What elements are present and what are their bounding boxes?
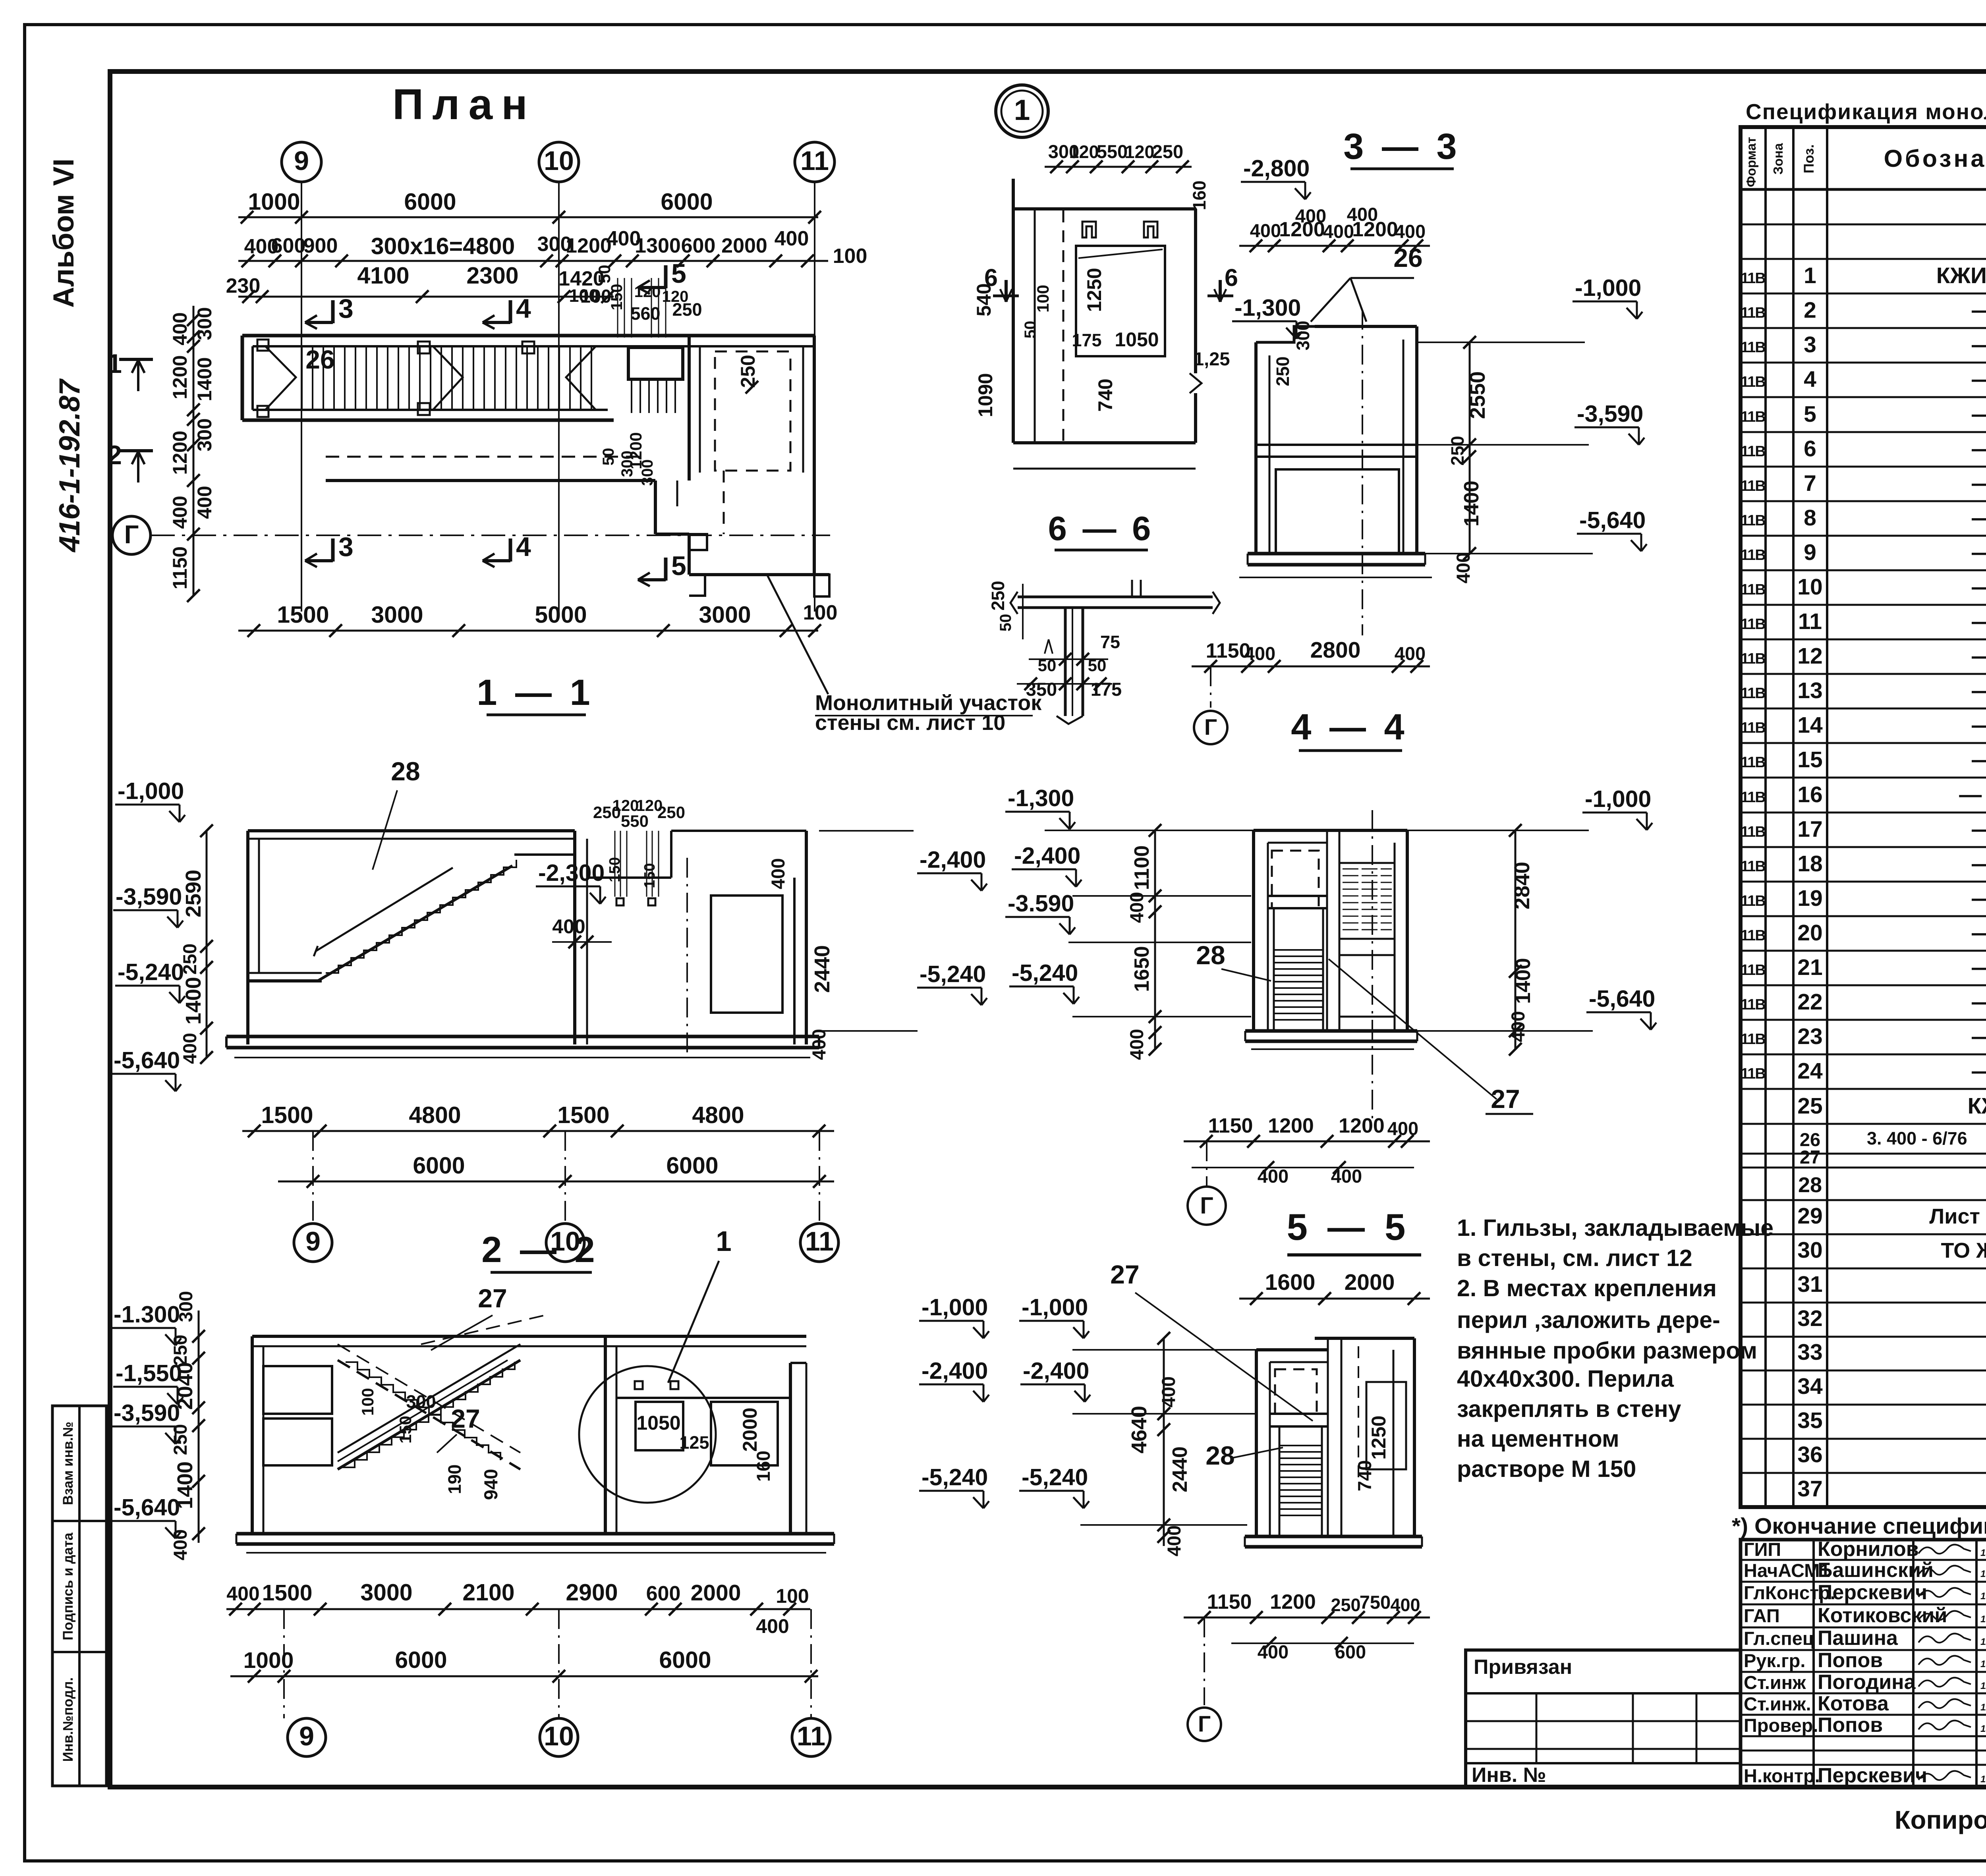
svg-text:29: 29 [1797,1203,1822,1229]
svg-text:11В: 11В [1741,996,1765,1013]
svg-text:400: 400 [226,1583,259,1605]
section 3-3 axis dash line [1362,310,1363,635]
svg-text:400: 400 [1295,205,1326,226]
svg-text:6000: 6000 [666,1152,718,1179]
svg-text:2: 2 [1804,297,1816,323]
svg-text:1090: 1090 [974,373,997,417]
svg-text:6000: 6000 [395,1647,447,1673]
svg-text:— НКР 38: — НКР 38 [1972,920,1986,946]
section 1-1 middle wall [573,831,576,1044]
section 5-5 bottom slab [1245,1535,1422,1538]
svg-text:11: 11 [797,1721,825,1751]
svg-text:-5,240: -5,240 [1022,1464,1088,1490]
svg-text:1000: 1000 [243,1648,294,1673]
svg-text:— НКР 24: — НКР 24 [1972,436,1986,461]
svg-text:11В: 11В [1741,1065,1765,1082]
svg-text:-1,000: -1,000 [1022,1294,1088,1320]
svg-text:550: 550 [1097,141,1128,162]
section 2-2 grid dim chain [230,1675,818,1677]
spec table heading row sborochnye [1741,224,1986,226]
svg-text:11В: 11В [1741,1031,1765,1048]
svg-text:15.10.86: 15.10.86 [1980,1774,1986,1785]
svg-text:11В: 11В [1741,270,1765,287]
svg-text:27: 27 [1800,1146,1820,1168]
svg-text:КЖН- НС9: КЖН- НС9 [1968,1093,1986,1119]
svg-text:Инв. №: Инв. № [1472,1764,1546,1787]
svg-text:Обозначение: Обозначение [1884,145,1986,172]
section 2-2 bottom dim chain [226,1608,810,1610]
svg-text:— НКР 22: — НКР 22 [1972,367,1986,392]
svg-text:Пашина: Пашина [1818,1627,1898,1650]
svg-text:25: 25 [1797,1093,1822,1119]
svg-text:1300: 1300 [635,234,681,257]
svg-text:400: 400 [1244,643,1275,664]
svg-text:3. 400 - 6/76: 3. 400 - 6/76 [1867,1128,1967,1148]
svg-text:1050: 1050 [636,1412,680,1434]
svg-text:400: 400 [1387,1118,1418,1139]
svg-text:— НКР 39: — НКР 39 [1972,955,1986,980]
svg-text:-1,000: -1,000 [118,778,184,804]
svg-text:12.10.86: 12.10.86 [1980,1702,1986,1713]
svg-text:250: 250 [170,1335,191,1366]
section 2-2 top slab [252,1335,806,1338]
section 3-3 left detail body [1013,207,1196,210]
svg-text:400: 400 [193,486,216,519]
signature squiggle [1918,1544,1971,1554]
svg-text:-1,000: -1,000 [1575,275,1641,301]
svg-text:1500: 1500 [277,602,329,628]
signature squiggle [1918,1699,1971,1708]
svg-text:27: 27 [451,1404,480,1433]
svg-text:400: 400 [756,1615,789,1637]
section 4-4 hatched block [1339,863,1395,939]
svg-text:Котиковский: Котиковский [1818,1604,1947,1627]
svg-text:11В: 11В [1741,512,1765,529]
section 1-1 mid landing [514,853,575,856]
svg-text:— НКР 20: — НКР 20 [1972,297,1986,323]
svg-text:Провер.: Провер. [1744,1715,1818,1736]
section 4-4 bottom slab [1245,1029,1417,1033]
svg-text:вянные пробки размером: вянные пробки размером [1457,1338,1757,1364]
svg-text:600: 600 [271,234,306,257]
section 2-2 crossing stair flights [338,1360,520,1469]
svg-text:— НКР 35: — НКР 35 [1972,816,1986,842]
svg-text:1200: 1200 [1268,1114,1314,1137]
section 1-1 grid circle 10 [546,1224,584,1262]
privyazan box [1466,1650,1741,1787]
section 2-2 grid circle 11 [792,1718,830,1756]
svg-text:400: 400 [1390,1595,1420,1615]
svg-text:-5,640: -5,640 [114,1047,180,1073]
section 5-5 stair treads [1279,1445,1322,1446]
svg-text:-5,640: -5,640 [114,1494,180,1521]
svg-text:17: 17 [1797,816,1822,842]
svg-text:400: 400 [1395,221,1426,242]
svg-text:11В: 11В [1741,858,1765,875]
svg-text:150: 150 [396,1416,415,1444]
section 5-5 top dims [1239,1298,1430,1300]
svg-text:— НКР 31: — НКР 31 [1972,678,1986,703]
title block signature table [1741,1540,1986,1787]
section 3-3 bottom slab [1248,552,1425,556]
plan lower walls [326,456,647,458]
svg-text:400: 400 [1507,1011,1528,1042]
section 2-2 left vertical dims [198,1310,200,1543]
svg-text:26: 26 [305,345,334,374]
svg-text:1200: 1200 [169,355,191,399]
svg-text:400: 400 [1258,1166,1289,1187]
svg-text:— НКР 33: — НКР 33 [1972,747,1986,772]
svg-text:7: 7 [1804,471,1816,496]
plan stair flight arrows left [265,346,296,410]
detail circle mark 1 double [996,85,1048,137]
svg-text:13.10.86: 13.10.86 [1980,1724,1986,1734]
svg-text:11: 11 [805,1226,834,1256]
svg-text:600: 600 [1335,1641,1366,1662]
plan stair mid column marks [418,342,430,353]
section 1-1 right upper notch [587,876,671,879]
svg-text:2550: 2550 [1466,371,1489,419]
svg-text:6000: 6000 [413,1152,465,1179]
svg-text:Погодина: Погодина [1818,1671,1916,1694]
svg-text:24: 24 [1797,1058,1823,1084]
svg-text:Рук.гр.: Рук.гр. [1744,1650,1805,1671]
svg-text:10: 10 [544,146,574,176]
section 1-1 grid circle 11 [800,1224,838,1262]
svg-text:Ст.инж: Ст.инж [1744,1672,1806,1693]
svg-text:250: 250 [657,803,685,822]
svg-text:Альбом VI: Альбом VI [48,158,80,308]
section 4-4 right dims [1515,830,1517,1049]
svg-text:400: 400 [808,1029,829,1060]
svg-text:1150: 1150 [169,546,191,589]
svg-text:4: 4 [1804,367,1816,392]
svg-text:11В: 11В [1741,339,1765,356]
svg-text:15.10.86: 15.10.86 [1980,1591,1986,1602]
svg-text:300: 300 [175,1291,196,1322]
svg-text:11В: 11В [1741,478,1765,494]
svg-text:4100: 4100 [357,262,409,289]
svg-text:— НКР 23: — НКР 23 [1972,401,1986,427]
svg-text:Инв.№подл.: Инв.№подл. [60,1677,76,1762]
spec table rows 29-37 [1741,1233,1986,1235]
svg-text:900: 900 [303,234,338,257]
section 1-1 top slab [248,829,575,832]
svg-text:4: 4 [516,293,531,324]
svg-text:2: 2 [107,440,122,470]
svg-text:3000: 3000 [360,1579,412,1606]
svg-text:400: 400 [170,1529,191,1560]
signature squiggle [1918,1677,1971,1687]
svg-text:Подпись и дата: Подпись и дата [60,1532,76,1641]
svg-text:Башинский: Башинский [1818,1559,1934,1582]
svg-text:-3,590: -3,590 [1577,401,1643,427]
svg-text:31: 31 [1797,1272,1822,1297]
section 1-1 anchor squares [616,898,624,905]
signature squiggle [1918,1633,1971,1642]
section 5-5 bottom dim chain [1184,1617,1430,1619]
svg-text:-1,000: -1,000 [1585,786,1651,812]
svg-text:1150: 1150 [1208,1114,1253,1137]
svg-text:3: 3 [1804,332,1816,357]
svg-text:16: 16 [1797,782,1822,807]
svg-text:ГАП: ГАП [1744,1605,1780,1626]
svg-text:-5,240: -5,240 [1012,960,1078,986]
section 1-1 grid dim chain 6000 [278,1181,834,1183]
svg-text:-1.300: -1.300 [114,1301,180,1328]
plan axis G dash-dot line [151,535,830,536]
svg-text:-1,000: -1,000 [922,1294,988,1320]
svg-text:5: 5 [671,259,686,289]
svg-text:5000: 5000 [535,602,587,628]
svg-text:1000: 1000 [248,189,300,215]
svg-text:300: 300 [193,418,216,451]
section 4-4 axis G circle [1188,1187,1226,1225]
svg-text:1400: 1400 [193,357,216,401]
svg-text:перил ,заложить дере-: перил ,заложить дере- [1457,1307,1720,1333]
svg-text:11В: 11В [1741,650,1765,667]
svg-text:1: 1 [107,349,122,379]
svg-text:36: 36 [1797,1442,1822,1467]
svg-text:3: 3 [338,293,354,324]
plan left end wall [241,336,244,420]
svg-text:27: 27 [478,1283,507,1313]
svg-text:250: 250 [170,1424,191,1455]
section 1-1 left wall [246,831,249,981]
signature squiggle [1918,1588,1971,1597]
svg-text:КЖИ - НКР19: КЖИ - НКР19 [1936,263,1986,288]
svg-text:100: 100 [833,245,867,268]
section 2-2 left wall with openings [251,1336,254,1534]
section 1-1 bottom dim chain [242,1130,834,1132]
plan left vertical dimension chain [193,306,195,596]
plan cut mark 5 top [664,265,668,288]
section 4-4 right tower [1326,830,1328,1031]
svg-text:190: 190 [444,1464,465,1494]
svg-text:Котова: Котова [1818,1692,1889,1715]
svg-text:23: 23 [1797,1024,1822,1049]
svg-text:Перскевич: Перскевич [1818,1764,1927,1787]
svg-text:-1,300: -1,300 [1234,295,1301,321]
svg-text:230: 230 [226,274,261,297]
svg-text:400: 400 [1250,220,1281,241]
svg-text:250: 250 [179,944,200,975]
svg-text:1. Гильзы, закладываемые: 1. Гильзы, закладываемые [1457,1215,1773,1241]
svg-text:1: 1 [1804,263,1816,288]
svg-text:50: 50 [595,265,614,284]
svg-text:75: 75 [1100,632,1120,652]
svg-text:34: 34 [1797,1374,1823,1399]
section 3-3 bottom dim chain [1192,666,1430,668]
svg-text:1200: 1200 [1270,1590,1316,1614]
svg-text:— НКР 41: — НКР 41 [1972,1024,1986,1049]
svg-text:— НКР 25: — НКР 25 [1972,471,1986,496]
section 5-5 right tower [1327,1338,1329,1536]
plan right dashed partition [715,351,790,471]
svg-text:1400: 1400 [1460,481,1483,527]
svg-text:2440: 2440 [1169,1446,1192,1492]
svg-text:Попов: Попов [1818,1649,1883,1672]
svg-text:400: 400 [1158,1376,1179,1407]
svg-text:3: 3 [338,532,354,562]
svg-text:-5,240: -5,240 [920,961,986,987]
svg-text:400: 400 [1163,1525,1184,1556]
svg-text:-1,300: -1,300 [1008,785,1074,811]
svg-text:9: 9 [1804,540,1816,565]
svg-text:250: 250 [1447,436,1468,465]
svg-text:28: 28 [1798,1173,1822,1197]
svg-text:в стены, см. лист 12: в стены, см. лист 12 [1457,1245,1692,1271]
svg-text:2000: 2000 [721,234,767,257]
svg-text:120: 120 [634,283,661,301]
svg-text:5 — 5: 5 — 5 [1287,1206,1410,1248]
svg-text:4800: 4800 [409,1102,461,1128]
plan grid circle 10 [539,142,579,182]
svg-text:12.10.86: 12.10.86 [1980,1681,1986,1691]
svg-text:2000: 2000 [739,1407,761,1451]
plan bottom right structure [689,573,829,576]
plan cut mark 5 bottom [664,558,668,581]
svg-text:9: 9 [299,1721,314,1751]
svg-text:250: 250 [988,581,1008,610]
svg-text:400: 400 [179,1033,200,1064]
svg-text:100: 100 [803,601,838,624]
svg-text:-2,400: -2,400 [1014,843,1080,869]
spec table rows 1-25 [1741,293,1986,295]
svg-text:Формат: Формат [1744,137,1758,187]
svg-text:120: 120 [1124,142,1154,162]
section 4-4 bottom dim chain [1184,1141,1430,1143]
plan grid circle 11 [795,142,835,182]
svg-text:— НКР3 34: — НКР3 34 [1959,782,1986,807]
svg-text:Гл.спец: Гл.спец [1744,1628,1814,1649]
svg-text:4640: 4640 [1127,1406,1151,1453]
svg-text:600: 600 [681,234,716,257]
section 3-3 left detail top dims [1045,166,1192,168]
plan top dimension chain 1 [238,216,818,218]
svg-text:2590: 2590 [182,870,205,917]
plan stair tread lines [301,346,303,410]
svg-text:1400: 1400 [1512,958,1535,1004]
svg-text:Лист 15: Лист 15 [1929,1204,1986,1228]
svg-text:3 — 3: 3 — 3 [1343,126,1461,167]
svg-text:2. В местах крепления: 2. В местах крепления [1457,1275,1717,1301]
svg-text:28: 28 [1196,940,1225,970]
svg-text:400: 400 [1258,1641,1289,1662]
svg-text:1200: 1200 [566,234,612,257]
svg-text:-5,640: -5,640 [1589,986,1655,1012]
plan cut mark 4 bottom [509,538,512,562]
svg-text:20: 20 [1797,920,1822,946]
svg-text:33: 33 [1797,1339,1822,1365]
svg-text:11В: 11В [1741,789,1765,806]
svg-text:28: 28 [391,757,420,786]
svg-text:100: 100 [358,1388,377,1416]
svg-text:Н.контр.: Н.контр. [1744,1765,1820,1786]
svg-text:13.10.86: 13.10.86 [1980,1548,1986,1558]
section 1-1 bottom slab [226,1035,819,1038]
section 5-5 left tower [1255,1350,1258,1536]
signature squiggle [1918,1771,1971,1780]
section 4-4 left vertical dims [1154,830,1156,1049]
signature squiggle [1918,1565,1971,1575]
svg-text:11В: 11В [1741,409,1765,425]
svg-text:5: 5 [1804,401,1816,427]
svg-text:2100: 2100 [462,1579,514,1606]
svg-text:21: 21 [1797,955,1822,980]
svg-text:100: 100 [776,1585,809,1607]
svg-text:1250: 1250 [1083,268,1105,312]
svg-text:— НКР 36: — НКР 36 [1972,851,1986,876]
section 3-3 right dims [1469,342,1471,554]
svg-text:2 — 2: 2 — 2 [481,1229,599,1270]
section 2-2 bottom slab [236,1532,834,1536]
svg-text:400: 400 [767,858,788,889]
svg-text:13.10.86: 13.10.86 [1980,1659,1986,1669]
svg-text:1: 1 [1014,94,1030,126]
svg-text:2440: 2440 [810,945,834,993]
svg-text:15.10.86: 15.10.86 [1980,1614,1986,1625]
svg-text:550: 550 [621,812,649,830]
svg-text:-2,800: -2,800 [1243,155,1310,181]
plan right rooms walls [688,336,691,481]
signature squiggle [1918,1656,1971,1665]
svg-text:160: 160 [753,1451,774,1482]
svg-text:Корнилов: Корнилов [1818,1538,1919,1561]
svg-text:100: 100 [569,286,599,306]
plan direction mark 1 [119,358,153,361]
svg-text:2000: 2000 [1345,1270,1395,1295]
svg-text:2840: 2840 [1510,862,1534,909]
svg-text:-5,640: -5,640 [1579,507,1646,533]
svg-text:300: 300 [406,1392,436,1412]
svg-text:1400: 1400 [173,1461,197,1509]
signature squiggle [1918,1720,1971,1729]
svg-text:2300: 2300 [466,262,518,289]
svg-text:22: 22 [1797,989,1822,1015]
svg-text:1100: 1100 [1130,845,1153,890]
svg-text:5: 5 [671,551,686,581]
svg-text:15: 15 [1797,747,1822,772]
svg-text:6000: 6000 [659,1647,711,1673]
svg-text:416-1-192.87: 416-1-192.87 [54,378,86,553]
svg-text:400: 400 [552,915,585,938]
section 2-2 grid circle 10 [540,1718,578,1756]
svg-text:Копировал:: Копировал: [1895,1805,1986,1834]
svg-text:— НКР 27: — НКР 27 [1972,540,1986,565]
svg-text:28: 28 [1206,1441,1234,1470]
svg-text:ГИП: ГИП [1744,1539,1781,1560]
svg-text:400: 400 [1347,204,1378,225]
svg-text:1050: 1050 [1115,328,1159,351]
svg-text:50: 50 [600,448,617,466]
svg-text:250: 250 [1331,1595,1360,1615]
svg-text:400: 400 [1395,643,1426,664]
svg-text:11В: 11В [1741,824,1765,840]
svg-text:11В: 11В [1741,374,1765,390]
svg-text:-3.590: -3.590 [1008,890,1074,917]
plan cut mark 4 top [509,300,512,323]
svg-text:400: 400 [1331,1166,1362,1187]
section 1-1 grid circle 9 [294,1224,332,1262]
svg-text:1200: 1200 [169,430,191,475]
svg-text:НачАСМ1: НачАСМ1 [1744,1560,1830,1581]
svg-text:11: 11 [800,146,829,176]
svg-text:-5,240: -5,240 [922,1464,988,1490]
svg-text:13: 13 [1797,678,1822,703]
svg-text:Г: Г [124,520,139,549]
svg-text:растворе М 150: растворе М 150 [1457,1456,1636,1482]
